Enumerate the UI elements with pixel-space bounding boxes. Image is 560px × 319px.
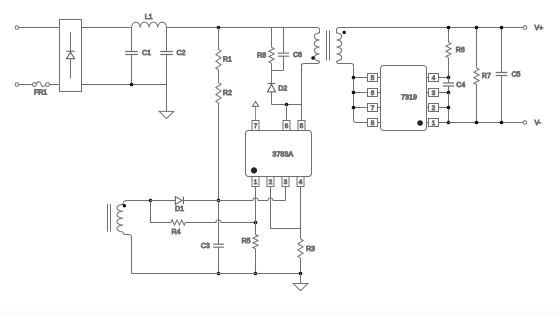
svg-text:7319: 7319 xyxy=(401,92,417,101)
svg-text:C3: C3 xyxy=(201,243,210,250)
svg-text:4: 4 xyxy=(299,179,303,186)
svg-text:7: 7 xyxy=(254,123,258,130)
svg-text:R5: R5 xyxy=(242,238,251,245)
svg-text:R7: R7 xyxy=(482,73,491,80)
svg-text:C4: C4 xyxy=(456,82,465,89)
svg-text:6: 6 xyxy=(285,123,289,130)
svg-text:2: 2 xyxy=(432,105,436,112)
svg-text:L1: L1 xyxy=(145,14,153,21)
svg-text:R3: R3 xyxy=(306,246,315,253)
svg-text:3: 3 xyxy=(432,90,436,97)
svg-text:1: 1 xyxy=(432,120,436,127)
svg-text:D2: D2 xyxy=(278,85,287,92)
svg-text:V-: V- xyxy=(535,120,542,127)
svg-text:5: 5 xyxy=(371,75,375,82)
svg-text:7: 7 xyxy=(371,105,375,112)
svg-text:V+: V+ xyxy=(535,25,544,32)
svg-text:R6: R6 xyxy=(456,47,465,54)
svg-text:R8: R8 xyxy=(257,53,266,60)
svg-text:8: 8 xyxy=(371,120,375,127)
svg-text:6: 6 xyxy=(371,90,375,97)
svg-text:R4: R4 xyxy=(172,229,181,236)
svg-text:3: 3 xyxy=(284,179,288,186)
svg-text:R2: R2 xyxy=(223,90,232,97)
svg-text:2: 2 xyxy=(269,179,273,186)
svg-text:C2: C2 xyxy=(177,50,186,57)
svg-text:C6: C6 xyxy=(293,52,302,59)
svg-text:FR1: FR1 xyxy=(34,90,47,97)
svg-text:D1: D1 xyxy=(175,206,184,213)
svg-text:4: 4 xyxy=(432,75,436,82)
svg-text:1: 1 xyxy=(254,179,258,186)
svg-text:5: 5 xyxy=(300,123,304,130)
svg-text:C1: C1 xyxy=(142,50,151,57)
svg-text:R1: R1 xyxy=(223,57,232,64)
svg-text:C5: C5 xyxy=(512,72,521,79)
svg-text:3783A: 3783A xyxy=(272,149,293,158)
